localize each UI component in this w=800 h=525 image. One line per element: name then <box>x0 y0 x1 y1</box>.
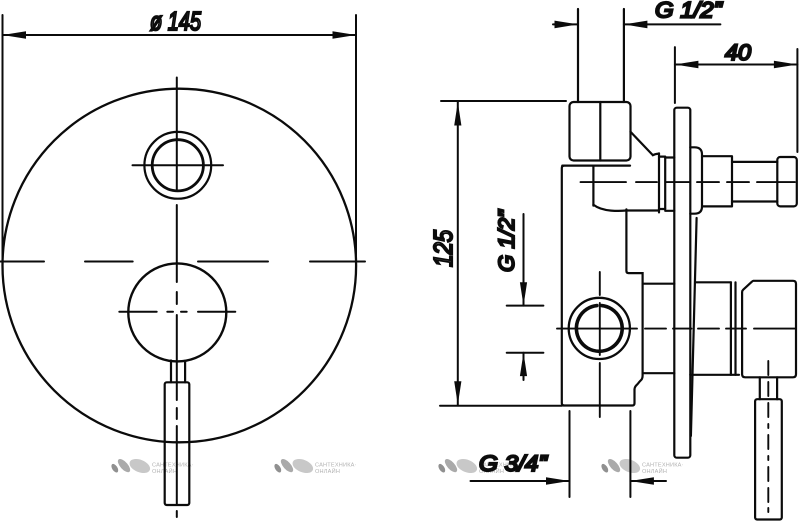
hub ring lines <box>731 282 736 375</box>
port horizontal centerline <box>557 328 795 330</box>
dimension ø145: right extension line <box>355 15 357 258</box>
inlet pipe G1/2 (top) <box>578 9 624 102</box>
svg-text:G 1/2": G 1/2" <box>655 0 723 23</box>
svg-text:САНТЕХНИКА·: САНТЕХНИКА· <box>152 463 194 469</box>
diverter knob outer circle <box>144 132 211 199</box>
elbow housing left edge <box>592 166 594 206</box>
lever knob circle <box>128 263 226 361</box>
cartridge sleeve body-to-flange bottom <box>643 372 675 374</box>
dimension 125: vertical dimension line <box>457 102 459 405</box>
watermark 1 <box>110 456 194 476</box>
svg-text:40: 40 <box>725 40 752 65</box>
svg-text:125: 125 <box>428 230 458 267</box>
cartridge sleeve body-to-flange top <box>643 283 675 285</box>
dimension G1/2 top: arrowheads <box>555 21 648 29</box>
dimension G1/2 side: dimension line segments <box>523 214 525 380</box>
elbow housing bottom (wavy) <box>593 205 626 211</box>
dimension 40: extension lines <box>675 47 798 152</box>
dimension ø145: arrowheads <box>3 31 357 39</box>
lever stem (front) <box>171 361 185 383</box>
inlet nut facet line <box>599 102 601 161</box>
handle rod (side) <box>755 399 782 519</box>
plate horizontal centerline <box>0 261 365 263</box>
outlet stub top/bottom edges between elbow and flange <box>626 157 674 211</box>
diverter knob horizontal crosshair <box>133 164 224 166</box>
dimension G3/4: extension lines <box>570 411 631 497</box>
svg-text:ø 145: ø 145 <box>150 6 201 36</box>
outlet pipe bulge behind flange <box>690 147 702 213</box>
dimension 125: top extension line <box>441 100 566 102</box>
outlet collar <box>702 156 732 206</box>
dimension ø145: dimension line <box>3 34 357 36</box>
outlet stub ring lines <box>659 153 665 212</box>
port vertical centerline <box>599 272 601 417</box>
port circle outer (G1/2 side port) <box>569 298 630 359</box>
dimension 125: bottom extension line <box>440 405 562 407</box>
dimension 40: arrowheads <box>675 61 798 69</box>
plate vertical centerline <box>176 78 178 518</box>
lever bar (front) <box>165 382 190 505</box>
hub bottom edge <box>690 374 739 376</box>
dimension 40: dimension line <box>675 64 798 66</box>
inlet nut <box>570 102 631 161</box>
handle rod centerline <box>767 361 769 512</box>
body top edge <box>562 165 630 167</box>
watermark 4 <box>600 456 684 476</box>
outlet pipe centerline <box>581 181 796 183</box>
svg-text:G 3/4": G 3/4" <box>479 451 548 476</box>
cover plate edge (tapered, behind flange) <box>691 218 697 436</box>
outlet pipe <box>732 162 777 202</box>
watermark 2 <box>273 456 357 476</box>
dimension G3/4: arrowheads <box>546 477 654 485</box>
dimension ø145: left extension line <box>2 15 4 258</box>
hub top edge <box>696 281 731 283</box>
svg-text:G 1/2": G 1/2" <box>494 209 519 272</box>
handle body <box>742 281 796 378</box>
dimension 125: arrowheads <box>454 102 461 405</box>
body right edge with step <box>626 209 642 389</box>
body left edge <box>562 166 564 406</box>
lever knob horizontal crosshair <box>119 311 235 313</box>
wall plate circle ø145 <box>3 89 357 443</box>
handle stem (side) <box>760 377 777 399</box>
outlet cap <box>777 157 797 206</box>
dimension G1/2 side: reference lines <box>507 306 544 353</box>
port circle inner thread (arc with gap at top) <box>576 306 622 352</box>
watermark 3 <box>437 456 521 476</box>
elbow diagonal <box>631 132 660 155</box>
wall flange plate <box>674 108 690 458</box>
dimension G3/4: dimension line segments <box>471 480 667 482</box>
diverter knob inner circle <box>152 140 203 191</box>
dimension G1/2 side: arrowheads <box>520 282 527 376</box>
body bottom edge <box>564 390 635 406</box>
dimension G1/2 top: dimension line with outside arrows <box>553 23 720 25</box>
